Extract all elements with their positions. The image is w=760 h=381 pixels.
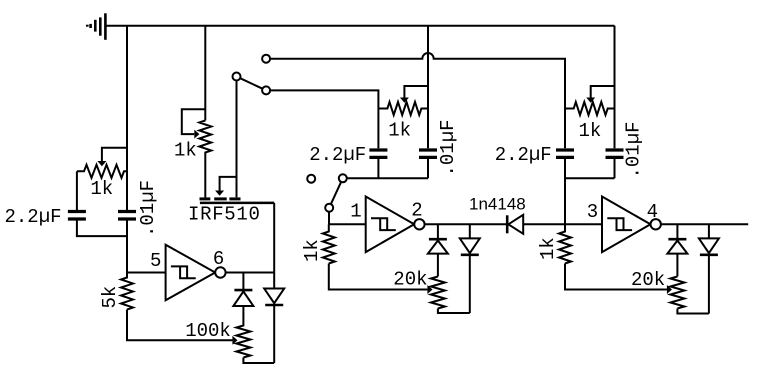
svg-text:1k: 1k	[90, 178, 113, 200]
potentiometer P2 100k	[236, 306, 250, 358]
wire P6 wiper loop	[591, 86, 615, 98]
wire P4 wiper loop	[404, 86, 428, 98]
transistor Q1 IRF510	[200, 197, 241, 200]
svg-text:1k: 1k	[174, 140, 197, 162]
svg-text:1k: 1k	[301, 239, 323, 262]
svg-text:3: 3	[587, 201, 598, 223]
wire top ground rail	[105, 25, 614, 27]
svg-text:5k: 5k	[99, 286, 121, 309]
hysteresis glyph U1C	[607, 218, 632, 230]
capacitor C6 .01uF (section 3)	[606, 150, 624, 157]
switch S1 throw B	[262, 86, 270, 94]
wire section1 left branch	[76, 171, 78, 210]
svg-text:6: 6	[213, 248, 224, 270]
wire R2 to P5 wiper	[329, 264, 428, 290]
wire section3 bottom rail	[677, 309, 709, 314]
wire section1 output	[226, 272, 275, 274]
potentiometer P5 20k	[431, 277, 445, 309]
op-amp U1A inverter 5-6	[166, 245, 216, 301]
potentiometer P6 1k (section 3)	[565, 102, 615, 115]
svg-text:4: 4	[647, 201, 658, 223]
svg-text:1: 1	[350, 200, 361, 222]
wire throwB to section2 pot	[270, 90, 378, 108]
switch S2 blade	[331, 182, 341, 204]
diode D4 (right, section2)	[469, 224, 471, 238]
wire section2 caps bottom rail	[347, 159, 428, 178]
hysteresis glyph U1B	[371, 218, 396, 230]
diode D1 (left, section1)	[242, 273, 244, 291]
ground	[86, 13, 105, 40]
svg-text:IRF510: IRF510	[188, 203, 261, 225]
capacitor C2 .01uF (section 1)	[118, 212, 136, 220]
svg-text:2.2µF: 2.2µF	[309, 144, 366, 166]
capacitor C3 2.2uF (section 2)	[377, 109, 379, 149]
diode D2 (right, section1)	[273, 203, 275, 289]
resistor R1 5k	[121, 273, 133, 310]
wire throwA to section3 (with hop)	[270, 53, 565, 109]
potentiometer P3 1k (IRF gate)	[199, 121, 211, 198]
resistor R3 1k (section 3)	[559, 224, 571, 263]
wire P1 wiper loop	[102, 148, 127, 161]
op-amp U1B inverter 1-2	[366, 197, 415, 253]
wire section2 bottom rail	[438, 309, 470, 314]
hysteresis glyph U1A	[171, 266, 196, 278]
potentiometer P4 1k (section 2)	[378, 102, 428, 115]
diode D6 (left, section3)	[676, 224, 678, 239]
svg-text:2.2µF: 2.2µF	[5, 206, 62, 228]
wire section3 left branch	[564, 59, 566, 225]
svg-text:.01µF: .01µF	[437, 119, 459, 176]
wire section3 main vertical	[614, 26, 616, 149]
svg-text:20k: 20k	[631, 269, 665, 291]
wire section2 input	[329, 223, 366, 225]
svg-text:.01µF: .01µF	[623, 121, 645, 178]
svg-text:100k: 100k	[185, 320, 231, 342]
potentiometer P1 1k (section 1)	[77, 165, 127, 178]
wire R3 to P7 wiper	[565, 264, 667, 290]
wire section3 caps bottom rail	[565, 159, 615, 178]
switch S1 pole	[233, 73, 241, 81]
svg-text:1k: 1k	[388, 120, 411, 142]
wire R1 to P2 wiper	[127, 310, 232, 341]
capacitor C1 2.2uF (section 1)	[68, 212, 86, 220]
svg-text:2: 2	[411, 200, 422, 222]
svg-text:5: 5	[150, 250, 161, 272]
resistor R2 1k (section 2)	[323, 224, 335, 263]
wire gate line vertical	[204, 26, 206, 121]
wire P3 wiper loop	[182, 109, 206, 134]
svg-text:20k: 20k	[393, 268, 427, 290]
switch S2 throw B	[339, 174, 347, 182]
wire section1 main vertical	[126, 26, 128, 210]
diode D5 1n4148	[506, 215, 509, 233]
wire section2 main vertical	[427, 26, 429, 149]
wire section3 output	[661, 223, 748, 225]
switch S1 blade	[240, 78, 262, 89]
capacitor C4 .01uF (section 2)	[419, 150, 437, 157]
diode D7 (right, section3)	[708, 224, 710, 238]
wire section1 input	[127, 221, 166, 273]
wire section2 output	[425, 223, 508, 225]
op-amp U1C inverter 3-4	[602, 197, 651, 253]
switch S2 throw open	[307, 175, 315, 183]
wire D5 to section3 input	[523, 223, 602, 225]
capacitor C5 2.2uF (section 3)	[556, 150, 574, 157]
svg-text:1k: 1k	[537, 237, 559, 260]
wire S2 pole to input	[328, 212, 330, 225]
svg-text:.01µF: .01µF	[137, 180, 159, 237]
svg-text:1k: 1k	[579, 120, 602, 142]
switch S2 pole	[325, 204, 333, 212]
svg-text:2.2µF: 2.2µF	[495, 144, 552, 166]
wire section1 bottom rail	[243, 358, 274, 364]
wire section1 caps bottom rail	[77, 221, 127, 237]
switch S1 throw A	[262, 55, 270, 63]
diode D3 (left, section2)	[437, 224, 439, 239]
potentiometer P7 20k	[670, 277, 684, 309]
svg-text:1n4148: 1n4148	[469, 195, 526, 214]
